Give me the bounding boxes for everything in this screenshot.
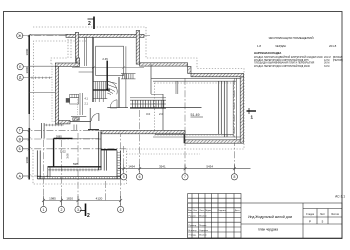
stair arrow dot <box>106 88 108 90</box>
stairwell side double <box>119 77 120 108</box>
stage values <box>309 219 324 223</box>
top wall thin part <box>29 34 66 36</box>
stair S1 winder fan <box>107 81 117 94</box>
right wing inner line v1 <box>235 78 237 139</box>
roof outline top-left <box>33 26 146 28</box>
door jamb verticals x74 <box>74 125 77 131</box>
svg-text:Лист: Лист <box>320 213 326 216</box>
right circles 5-8 <box>121 174 238 180</box>
svg-text:1494: 1494 <box>128 164 135 168</box>
right wing inner line h3 <box>153 136 240 138</box>
axis 1 vertical <box>43 140 45 205</box>
svg-text:51.49: 51.49 <box>191 113 200 117</box>
title block header texts <box>188 209 240 212</box>
svg-text:Н.контр.: Н.контр. <box>189 230 198 232</box>
svg-text:2: 2 <box>87 213 90 219</box>
room divider x163 <box>162 94 164 130</box>
svg-text:Р: Р <box>309 219 311 223</box>
WC fixture dark <box>66 98 70 103</box>
svg-text:1: 1 <box>43 208 45 212</box>
axis V horizontal y139 <box>22 138 101 140</box>
terrace left wall double <box>37 150 40 179</box>
stair S3 upper edge line <box>130 97 166 99</box>
washbasin divisions <box>72 94 77 97</box>
stair S1 flight treads row1 <box>93 81 107 89</box>
right wing inner line h1 <box>151 78 240 80</box>
svg-text:Дата: Дата <box>235 210 241 212</box>
right wing left edge thin <box>150 64 152 94</box>
dotted lower line right wing <box>127 153 201 155</box>
svg-text:Петров: Петров <box>199 225 207 227</box>
room A top wall thin continuation <box>73 137 99 139</box>
svg-text:3: 3 <box>77 208 79 212</box>
door arc room A <box>91 113 99 121</box>
bottom circles 1-4 <box>40 206 123 212</box>
axis 8 vertical <box>233 78 235 172</box>
svg-text:1820: 1820 <box>66 196 73 200</box>
dim line right <box>118 165 251 174</box>
svg-text:НАРУЖНАЯ КЛАДКА: НАРУЖНАЯ КЛАДКА <box>254 51 281 55</box>
room A bottom wall <box>48 166 102 168</box>
stair S3 long treads <box>130 100 166 107</box>
left table horizontals <box>188 197 241 199</box>
explication row <box>257 44 337 48</box>
name cell divider <box>241 223 303 225</box>
axis B horizontal y148.8 <box>22 148 126 150</box>
step wall at x184 <box>184 131 186 143</box>
axis 5 vertical <box>123 146 125 172</box>
door swing arc lower <box>110 100 117 108</box>
right wing inner line v2 <box>232 81 234 137</box>
axis 3 vertical <box>77 133 79 205</box>
roof outline right steps <box>33 27 244 184</box>
stairwell opening thin rect <box>96 46 124 75</box>
interior partition y121.4 <box>70 120 91 122</box>
stair arrow bold x107.2 <box>106 61 108 90</box>
L-wall horizontal hatched center top <box>55 63 79 66</box>
corridor edge y94.3 <box>151 93 163 95</box>
room A top wall <box>54 137 73 139</box>
svg-text:Иванов: Иванов <box>199 215 207 217</box>
inner dashed stair hall <box>51 37 68 65</box>
axis 2 vertical <box>60 140 62 205</box>
svg-text:4120: 4120 <box>96 196 103 200</box>
right complex: horizontal hatched y63 <box>140 63 188 66</box>
right complex: vertical hatched x187.6 <box>188 66 191 73</box>
jamb double below band x176 <box>176 81 178 94</box>
svg-text:5434: 5434 <box>206 164 213 168</box>
svg-text:3000: 3000 <box>25 48 29 55</box>
svg-text:Листов: Листов <box>331 213 339 216</box>
svg-text:201.8: 201.8 <box>329 44 337 48</box>
terrace bottom balusters <box>40 177 118 179</box>
terrace right wall double balustrade <box>117 150 120 179</box>
stage headers <box>306 213 340 216</box>
masonry row 4 <box>254 65 329 68</box>
underline <box>191 116 204 118</box>
right grid outer <box>302 203 304 238</box>
svg-text:4: 4 <box>120 208 122 212</box>
axis G horizontal y130.3 <box>22 129 126 131</box>
stair S1 mid landing thick <box>93 89 110 91</box>
svg-text:КЛАДКА ПЕРЕГОРОДОК КИРПИЧНЫЙ В: КЛАДКА ПЕРЕГОРОДОК КИРПИЧНЫЙ ВИД М100 <box>254 65 311 68</box>
inner dashed stair hall b <box>70 37 72 59</box>
stair hall partition thin double <box>85 37 87 66</box>
right wing inner line h4 <box>155 134 233 136</box>
dotted column <box>76 97 78 116</box>
svg-text:Инд.Жидульный жилой дом: Инд.Жидульный жилой дом <box>248 215 293 219</box>
svg-text:план чердака: план чердака <box>258 228 278 232</box>
right wing right wall hatched <box>240 77 243 143</box>
washbasin fixture <box>70 94 79 97</box>
room A left wall <box>53 138 55 166</box>
section 2 cut line through stair <box>92 38 94 103</box>
svg-text:12.94: 12.94 <box>72 118 80 122</box>
L-wall vertical hatched center <box>55 64 58 124</box>
top wall hatched part <box>66 34 144 37</box>
window ticked band y125 <box>44 124 63 126</box>
cabinet rect <box>70 98 79 104</box>
stairwell right edge double <box>125 46 127 108</box>
door leaf <box>98 113 100 121</box>
svg-text:1985: 1985 <box>49 196 56 200</box>
svg-text:8: 8 <box>233 175 235 179</box>
left circles letters <box>17 33 24 180</box>
small fixture hatched <box>73 117 79 120</box>
terrace bottom wall double balustrade <box>37 177 120 179</box>
hall floor edge <box>79 71 93 73</box>
svg-text:Лист: Лист <box>199 210 204 212</box>
axis 4 vertical <box>120 130 122 205</box>
svg-text:5985: 5985 <box>56 134 62 138</box>
inner partition double v x224 <box>224 81 227 137</box>
inner partition double v x219 <box>219 81 222 134</box>
left revision table <box>188 194 241 239</box>
axis 6 vertical <box>139 110 141 172</box>
masonry row 1 <box>254 56 343 59</box>
svg-text:ЭКСПЛИКАЦИЯ ПОМЕЩЕНИЙ: ЭКСПЛИКАЦИЯ ПОМЕЩЕНИЙ <box>268 36 313 40</box>
masonry row 2 <box>254 59 343 62</box>
section 2 bottom mark <box>80 204 86 217</box>
long bottom wall of mid section hatched <box>101 130 185 133</box>
svg-text:5: 5 <box>123 175 125 179</box>
svg-text:Иванов: Иванов <box>199 235 207 237</box>
svg-text:2: 2 <box>88 21 91 27</box>
right grid top row <box>303 208 342 210</box>
axis A horizontal y176 <box>22 175 48 177</box>
left room lower divider <box>29 92 55 94</box>
stair hall right wall hatched <box>136 31 139 65</box>
wall segment y129.7 <box>88 129 99 131</box>
window ticked line below room A <box>48 169 102 172</box>
svg-text:1.8: 1.8 <box>257 44 261 48</box>
svg-text:№док: №док <box>205 209 211 212</box>
svg-text:2.45: 2.45 <box>102 57 108 61</box>
left room south face line <box>29 65 55 67</box>
svg-text:Подпись: Подпись <box>218 210 228 212</box>
title block row texts <box>189 215 209 236</box>
room A right wall double <box>99 132 101 170</box>
svg-text:2.0: 2.0 <box>159 112 164 116</box>
svg-text:2: 2 <box>60 208 62 212</box>
svg-text:Разраб.: Разраб. <box>189 215 197 217</box>
svg-text:3000: 3000 <box>25 156 29 163</box>
left wall window segment <box>28 114 30 128</box>
inner dashed offset upper-left room <box>34 41 87 120</box>
svg-text:[ПЕНОБ]: [ПЕНОБ] <box>333 59 343 62</box>
svg-text:3000: 3000 <box>25 66 29 73</box>
svg-text:АС-1.1: АС-1.1 <box>335 195 345 199</box>
svg-text:Стадия: Стадия <box>306 213 315 216</box>
hall dimension line <box>72 66 144 69</box>
title block outer <box>188 203 342 238</box>
svg-text:Сидоров: Сидоров <box>199 230 209 232</box>
partition double v x104 <box>104 150 106 170</box>
left wall axis ticks <box>28 34 31 178</box>
partition double x80 <box>80 93 82 115</box>
stair S4 upper flight treads <box>121 74 136 79</box>
stair hall left wall hatched <box>75 32 78 66</box>
terrace right balusters <box>117 153 120 176</box>
svg-text:Г: Г <box>19 129 21 133</box>
axis stub x105.3 <box>104 181 106 201</box>
section 2 top mark <box>88 17 95 30</box>
left wall lower segment <box>28 128 30 180</box>
partition vertical x90 <box>89 108 91 130</box>
beam line mid <box>107 107 128 109</box>
svg-text:34 М: 34 М <box>324 65 329 68</box>
right wing bottom wall hatched <box>185 140 240 143</box>
wall x41.4 double <box>41 123 44 138</box>
stair S3 bottom thick edge <box>130 107 166 109</box>
partition y116.7 <box>71 116 86 118</box>
stair S1 flight treads row2 <box>93 90 107 102</box>
svg-text:3.06: 3.06 <box>66 153 70 159</box>
axis 7 vertical <box>184 78 186 172</box>
svg-text:3541: 3541 <box>159 164 166 168</box>
svg-text:5985: 5985 <box>73 163 79 166</box>
svg-text:5.02: 5.02 <box>60 150 66 154</box>
dim texts right <box>128 164 213 168</box>
left table verticals <box>191 194 193 239</box>
svg-text:Утверд.: Утверд. <box>189 235 197 237</box>
wall axis B segment <box>101 149 117 151</box>
beam line to room label <box>166 107 202 109</box>
svg-text:7: 7 <box>184 175 186 179</box>
right wing inner line h2 <box>153 80 236 82</box>
left wall <box>28 35 30 114</box>
left room window band ticked <box>29 77 52 79</box>
dim texts bottom-left <box>49 196 103 200</box>
step double left <box>48 167 50 177</box>
room label 51.49 <box>191 113 200 117</box>
leaders left circles <box>23 66 29 176</box>
masonry row 3 <box>254 62 329 65</box>
svg-text:Провер.: Провер. <box>189 225 198 227</box>
dim line bottom-left <box>42 196 122 206</box>
section 1 right mark <box>247 108 257 114</box>
svg-text:6: 6 <box>139 175 141 179</box>
svg-text:Изм: Изм <box>188 210 193 212</box>
L-wall stub up <box>76 58 79 63</box>
right complex: horizontal hatched y73.4 top of right wing <box>191 73 244 76</box>
L-wall horizontal hatched bottom <box>59 121 70 124</box>
inner dashed right wing <box>155 83 234 135</box>
axis D horizontal y36.5 <box>22 35 150 37</box>
svg-text:3.0: 3.0 <box>146 112 151 116</box>
dotted offset line x52 <box>52 64 70 122</box>
svg-text:ЧЕРДАК: ЧЕРДАК <box>275 44 286 48</box>
